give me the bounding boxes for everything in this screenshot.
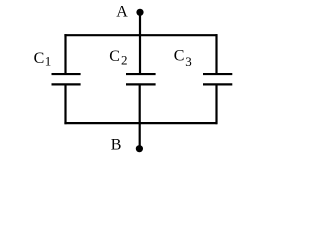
wire: bottom bus B rail <box>64 122 217 124</box>
svg-text:B: B <box>111 136 122 153</box>
wire: top bus A rail <box>64 34 217 36</box>
wire: right branch top lead <box>215 34 217 74</box>
svg-text:C: C <box>109 48 120 65</box>
label C1 <box>34 50 52 69</box>
wire: middle branch top lead from node A <box>139 12 141 74</box>
svg-text:A: A <box>116 3 128 20</box>
label C2 <box>109 48 127 67</box>
wire: left branch bottom lead <box>64 84 66 124</box>
capacitor C2 <box>126 74 156 84</box>
node B terminal dot <box>136 145 143 152</box>
label C3 <box>174 47 192 69</box>
node A terminal dot <box>136 9 143 16</box>
capacitor C1 <box>52 74 81 84</box>
svg-text:C: C <box>174 47 185 64</box>
svg-text:3: 3 <box>185 54 192 69</box>
capacitor C3 <box>203 74 232 84</box>
svg-text:2: 2 <box>121 53 128 68</box>
wire: middle branch bottom lead to node B <box>139 84 141 149</box>
wire: left branch top lead <box>64 34 66 74</box>
svg-text:C: C <box>34 50 45 67</box>
svg-text:1: 1 <box>45 54 52 69</box>
wire: right branch bottom lead <box>215 84 217 124</box>
